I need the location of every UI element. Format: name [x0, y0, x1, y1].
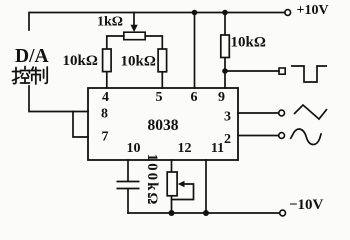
- resistor R3 10kΩ body: [221, 35, 230, 58]
- symbol: square wave: [291, 66, 327, 82]
- resistor R1 10kΩ body: [103, 49, 112, 72]
- wire: R2 bottom to pin 5: [161, 72, 163, 88]
- svg-text:7: 7: [102, 130, 109, 145]
- junction dot: rail / R3: [222, 10, 228, 16]
- wire: rail to RP1 wiper: [133, 13, 135, 26]
- wire: pin 10 to C1: [127, 160, 129, 181]
- wire: rail to R3 top: [224, 13, 226, 36]
- wire: pin 7 tie bracket: [73, 112, 88, 138]
- wire: R3 bottom to pin 9: [224, 58, 226, 89]
- IC U1 8038 body: [88, 88, 238, 160]
- potentiometer RP2 100kΩ body: [167, 172, 177, 196]
- svg-text:1kΩ: 1kΩ: [97, 15, 123, 30]
- wire: top +10V rail: [29, 13, 285, 31]
- wire: bottom -10V rail: [128, 212, 280, 214]
- svg-text:12: 12: [178, 141, 192, 156]
- wire: RP2 bottom to bottom rail: [171, 195, 173, 213]
- junction dot: rail / pin6: [192, 10, 198, 16]
- potentiometer RP1 wiper arrowhead: [131, 25, 138, 32]
- svg-text:10kΩ: 10kΩ: [63, 53, 98, 69]
- capacitor C1: [117, 182, 140, 189]
- symbol: sine wave: [290, 129, 321, 145]
- wire: pin-9 node to square-wave terminal: [225, 70, 279, 72]
- wire: pin 11 to bottom rail: [205, 160, 207, 213]
- terminal: square-wave output: [279, 68, 285, 74]
- junction dot: RP2 / bottom rail: [169, 210, 175, 216]
- svg-text:10kΩ: 10kΩ: [231, 35, 266, 51]
- svg-text:9: 9: [218, 90, 225, 105]
- svg-text:11: 11: [211, 141, 224, 156]
- wire: C1 to bottom rail: [127, 189, 129, 213]
- svg-text:+10V: +10V: [297, 3, 329, 18]
- svg-text:D/A: D/A: [15, 46, 49, 67]
- svg-text:8038: 8038: [148, 117, 179, 134]
- wire: RP2 wiper to bottom lead: [172, 184, 194, 200]
- potentiometer RP2 wiper arrowhead: [178, 181, 185, 188]
- svg-text:5: 5: [156, 90, 163, 105]
- 制 left part: [32, 67, 33, 70]
- label: 控制 (hand-drawn strokes): [13, 67, 48, 85]
- svg-text:−10V: −10V: [289, 197, 324, 213]
- svg-text:10: 10: [127, 141, 141, 156]
- svg-text:2: 2: [224, 132, 231, 147]
- wire: D/A control drop to pin-8 net: [29, 86, 88, 112]
- wire: pin 2 to sine terminal: [238, 135, 279, 137]
- terminal: +10V: [285, 10, 291, 16]
- symbol: triangle wave: [294, 105, 327, 119]
- potentiometer RP1 1kΩ body: [124, 32, 145, 40]
- svg-text:8: 8: [101, 107, 108, 122]
- wire: pin 3 to triangle terminal: [238, 112, 279, 114]
- 控 radical 扌: [13, 71, 20, 73]
- wire: RP1 left lead to R1: [107, 36, 124, 49]
- wire: rail to pin 6: [194, 13, 196, 89]
- 制 radical 刂: [43, 70, 45, 79]
- terminal: -10V: [280, 210, 286, 216]
- svg-text:3: 3: [224, 110, 231, 125]
- terminal: triangle output (pin 3): [279, 110, 285, 116]
- wire: R1 bottom to pin 4: [106, 72, 108, 88]
- svg-text:4: 4: [102, 90, 109, 105]
- 控 component 空: [24, 67, 26, 70]
- wire: RP1 right lead to R2: [145, 36, 162, 49]
- svg-text:6: 6: [191, 90, 198, 105]
- svg-text:10kΩ: 10kΩ: [121, 54, 156, 70]
- junction dot: pin9 / square-wave tap: [222, 68, 228, 74]
- wire: pin 12 to RP2: [171, 160, 173, 172]
- svg-text:100kΩ: 100kΩ: [144, 154, 160, 207]
- resistor R2 10kΩ body: [158, 49, 167, 72]
- junction dot: pin 11 / bottom rail: [203, 210, 209, 216]
- terminal: sine output (pin 2): [279, 133, 285, 139]
